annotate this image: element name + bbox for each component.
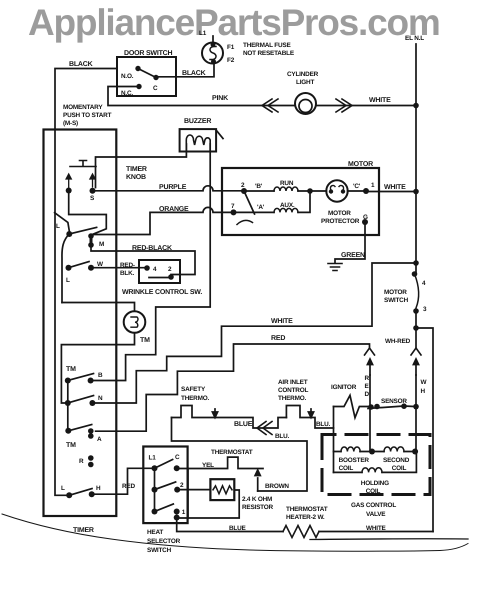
node wh-red	[413, 325, 419, 331]
heat selector terminal 2	[174, 487, 180, 493]
heat selector pivot 1	[152, 509, 158, 515]
svg-text:BUZZER: BUZZER	[184, 118, 211, 125]
svg-text:D: D	[365, 391, 370, 398]
svg-text:KNOB: KNOB	[126, 174, 146, 181]
svg-text:COIL: COIL	[366, 488, 381, 495]
svg-text:WH-RED: WH-RED	[385, 338, 411, 345]
wrinkle control switch box	[139, 260, 180, 283]
svg-text:RESISTOR: RESISTOR	[242, 504, 274, 511]
wire red sensor drop	[369, 375, 371, 452]
motor switch contact 4	[412, 271, 418, 277]
motor box	[222, 168, 379, 235]
wrinkle internal contact bar	[149, 277, 168, 279]
motor AUX winding	[274, 208, 298, 212]
wire right main neutral line	[415, 44, 417, 274]
node white branch	[413, 260, 419, 266]
wire 3 to wh-red node	[415, 311, 417, 348]
booster coil	[341, 447, 360, 452]
svg-text:(M-S): (M-S)	[63, 120, 78, 127]
thermal fuse lead L1	[212, 36, 214, 42]
ignitor element	[334, 395, 369, 417]
svg-text:PROTECTOR: PROTECTOR	[321, 218, 360, 225]
svg-text:THERMO.: THERMO.	[181, 395, 209, 402]
svg-text:R: R	[79, 458, 84, 465]
svg-text:MOTOR: MOTOR	[348, 161, 373, 168]
thermostat heater element	[283, 526, 319, 538]
timer contact S	[90, 188, 96, 194]
motor terminal 1	[363, 188, 369, 194]
wire WHITE bottom rail	[319, 531, 433, 533]
buzzer box	[180, 129, 217, 151]
wire BLACK door switch C to thermal fuse	[158, 64, 214, 77]
heat selector arm L1-C	[155, 460, 173, 469]
svg-text:SECOND: SECOND	[383, 457, 410, 464]
svg-text:CYLINDER: CYLINDER	[287, 71, 319, 78]
wire W to wrinkle control 4	[91, 267, 147, 269]
buzzer corner tick	[217, 131, 224, 139]
push-to-start arrow right	[90, 174, 95, 187]
door switch terminal N.O.	[135, 66, 140, 71]
svg-text:'A': 'A'	[257, 204, 265, 211]
svg-text:TM: TM	[66, 442, 76, 449]
svg-text:BLUE: BLUE	[234, 421, 253, 428]
svg-text:CONTROL: CONTROL	[278, 387, 308, 394]
page curl scan edge	[2, 514, 468, 551]
wire wh sensor drop	[415, 375, 417, 452]
svg-text:SAFETY: SAFETY	[181, 386, 206, 393]
disconnect chevrons left of cylinder light	[262, 99, 278, 112]
wire timer motor to B/N/A pivots	[61, 333, 134, 403]
wrinkle terminal 4	[144, 265, 150, 271]
timer arm L-W	[69, 262, 90, 268]
svg-text:THERMOSTAT: THERMOSTAT	[211, 449, 253, 456]
svg-text:'B': 'B'	[255, 183, 263, 190]
cylinder light lamp	[295, 93, 316, 114]
svg-text:THERMAL FUSE: THERMAL FUSE	[243, 42, 291, 49]
svg-text:PUSH TO START: PUSH TO START	[63, 112, 112, 119]
svg-text:'C': 'C'	[353, 183, 361, 190]
svg-text:SWITCH: SWITCH	[384, 297, 409, 304]
timer arm B	[68, 374, 94, 381]
timer arm N	[68, 396, 94, 404]
wire right outer drop	[416, 328, 433, 532]
wire RED timer H to heat selector L1	[92, 468, 155, 494]
svg-text:COIL: COIL	[392, 465, 407, 472]
svg-text:RUN: RUN	[280, 180, 294, 187]
wire WHITE motor to main line	[366, 191, 416, 193]
motor protector	[326, 180, 347, 201]
ground symbol	[328, 264, 342, 271]
wrinkle terminal 2	[168, 274, 174, 280]
svg-text:ORANGE: ORANGE	[159, 206, 189, 213]
motor switch contact 3	[413, 308, 419, 314]
wire W feed to timer motor	[62, 303, 135, 312]
svg-text:WHITE: WHITE	[271, 318, 293, 325]
svg-text:F2: F2	[227, 57, 235, 64]
svg-text:M: M	[99, 241, 104, 248]
svg-text:VALVE: VALVE	[366, 511, 386, 518]
svg-text:H: H	[96, 485, 101, 492]
svg-text:BROWN: BROWN	[265, 483, 289, 490]
svg-text:MOTOR: MOTOR	[328, 210, 351, 217]
wire 2 to resistor	[177, 489, 210, 491]
wire buzzer left leg to S contact	[96, 144, 187, 188]
timer contact B pivot	[65, 378, 71, 384]
sensor node dots	[368, 404, 374, 410]
contact dot left of S	[66, 188, 72, 194]
timer arm L-M	[69, 227, 96, 234]
timer contact B	[88, 378, 94, 384]
push-to-start knob symbol	[70, 161, 96, 167]
heat selector switch box	[143, 447, 187, 524]
gas valve dashed enclosure	[322, 435, 430, 495]
svg-text:AIR INLET: AIR INLET	[278, 379, 308, 386]
second coil	[384, 447, 404, 452]
node second/wh	[412, 449, 418, 455]
disconnect chevron wh line	[411, 348, 421, 355]
svg-text:AUX.: AUX.	[280, 202, 295, 209]
resistor zigzag	[213, 486, 232, 494]
heat selector pivot chain	[154, 468, 156, 511]
svg-text:2.4 K OHM: 2.4 K OHM	[242, 496, 272, 503]
svg-text:WRINKLE CONTROL SW.: WRINKLE CONTROL SW.	[122, 289, 202, 296]
disconnect chevrons right of cylinder light	[336, 99, 352, 112]
svg-text:N.C.: N.C.	[121, 90, 133, 97]
svg-text:L: L	[56, 223, 60, 230]
timer contact L-H pivot	[66, 492, 72, 498]
node pink/neutral	[413, 103, 419, 109]
svg-text:A: A	[97, 436, 102, 443]
heat selector terminal 1 dots	[174, 509, 180, 515]
wire run winding row	[244, 190, 310, 192]
svg-text:RED: RED	[122, 483, 135, 490]
heat selector arm 2	[155, 482, 176, 490]
wire RED-BLACK M to wrinkle control	[91, 245, 195, 277]
svg-text:IGNITOR: IGNITOR	[331, 384, 357, 391]
svg-text:PURPLE: PURPLE	[159, 184, 187, 191]
timer contact H	[89, 491, 95, 497]
wire YEL + thermostat bump	[177, 457, 263, 468]
timer arm L-H	[69, 489, 92, 496]
svg-text:L: L	[61, 485, 65, 492]
sensor bar	[368, 406, 416, 409]
safety thermostat	[172, 406, 216, 418]
connector tick blue	[212, 409, 217, 418]
svg-text:MOMENTARY: MOMENTARY	[63, 104, 103, 111]
wire GREEN to ground	[335, 222, 365, 263]
timer contact R dots	[88, 455, 94, 461]
svg-text:RED-BLACK: RED-BLACK	[132, 245, 172, 252]
motor RUN winding	[274, 187, 298, 191]
wire BLACK from door switch to timer feed	[55, 69, 117, 496]
svg-text:RED-: RED-	[120, 262, 135, 269]
timer contact M dots	[88, 233, 94, 239]
svg-text:R: R	[365, 375, 370, 382]
push-to-start arrow left	[66, 174, 71, 188]
svg-text:C: C	[175, 454, 180, 461]
wire safety left to brown node	[172, 418, 308, 492]
svg-text:BLUE: BLUE	[229, 525, 247, 532]
svg-text:F1: F1	[227, 44, 235, 51]
disconnect arrow wh line	[413, 359, 418, 375]
motor switch arm 2-A	[244, 191, 255, 214]
svg-text:TM: TM	[66, 366, 76, 373]
svg-text:H: H	[421, 388, 426, 395]
wire white branch to staircase	[95, 263, 416, 403]
motor terminal 2	[241, 188, 247, 194]
wire ORANGE M to motor 7	[91, 207, 234, 234]
wire RED staircase to timer A	[96, 344, 370, 431]
ignitor feed vertical	[333, 407, 335, 473]
centrifugal actuator arc	[237, 220, 253, 224]
svg-text:L1: L1	[149, 455, 157, 462]
motor terminal 7	[231, 209, 237, 215]
svg-text:SWITCH: SWITCH	[147, 547, 172, 554]
svg-text:BLU.: BLU.	[316, 421, 331, 428]
svg-text:L1: L1	[199, 30, 207, 37]
wire resistor right loop	[177, 490, 240, 518]
svg-text:WHITE: WHITE	[369, 97, 391, 104]
timer contact N	[89, 400, 95, 406]
wire protector row	[310, 190, 366, 192]
svg-text:TM: TM	[140, 337, 150, 344]
timer contact N pivot	[65, 400, 71, 406]
svg-text:GAS CONTROL: GAS CONTROL	[351, 502, 396, 509]
wire blue step	[215, 418, 286, 429]
wire left arrow dot to M loop	[69, 191, 107, 236]
svg-text:WHITE: WHITE	[366, 525, 387, 532]
timer arm A	[68, 425, 91, 431]
svg-text:MOTOR: MOTOR	[384, 289, 407, 296]
wire terminal 1 to bottom rail	[177, 518, 283, 532]
svg-text:GREEN: GREEN	[341, 252, 365, 259]
timer L wedge feed	[55, 213, 70, 231]
timer contact L pivot	[66, 231, 72, 237]
wire buzzer right leg down	[91, 144, 211, 381]
wire L pivot to L-W pivot	[62, 234, 69, 303]
connector tick blu right	[308, 409, 313, 418]
valve loop sides and holding coil row	[334, 452, 417, 473]
svg-text:BLACK: BLACK	[182, 70, 206, 77]
holding coil	[362, 468, 382, 473]
svg-text:HEATER-2 W.: HEATER-2 W.	[286, 514, 325, 521]
node booster/second	[369, 449, 375, 455]
heat selector terminal C	[174, 465, 180, 471]
svg-text:AppliancePartsPros.com: AppliancePartsPros.com	[28, 2, 440, 43]
valve coil loop top	[334, 451, 417, 453]
svg-text:N.O.: N.O.	[121, 73, 134, 80]
svg-text:HEAT: HEAT	[147, 529, 163, 536]
svg-text:COIL: COIL	[339, 465, 354, 472]
door switch terminal N.C.	[136, 84, 141, 89]
door switch S1 box	[117, 57, 176, 96]
svg-text:THERMOSTAT: THERMOSTAT	[286, 506, 328, 513]
svg-text:BLACK: BLACK	[69, 61, 93, 68]
svg-text:BOOSTER: BOOSTER	[339, 457, 370, 464]
heat selector pivot 2	[152, 487, 158, 493]
disconnect chevron red line	[365, 348, 375, 355]
disconnect arrow red line	[367, 359, 372, 375]
svg-text:PINK: PINK	[212, 95, 228, 102]
svg-text:BLK.: BLK.	[120, 270, 135, 277]
svg-text:N: N	[98, 395, 103, 402]
wire PURPLE S to motor 2	[93, 186, 245, 191]
timer box	[44, 130, 117, 517]
svg-text:DOOR SWITCH: DOOR SWITCH	[124, 50, 172, 57]
svg-text:BLU.: BLU.	[275, 433, 290, 440]
door switch arm N.O.-C	[138, 69, 156, 78]
connector arrow brown drop	[255, 470, 260, 491]
node motor white	[413, 189, 419, 195]
resistor 2.4K box	[210, 479, 234, 500]
svg-text:NOT RESETABLE: NOT RESETABLE	[243, 50, 295, 57]
svg-text:HOLDING: HOLDING	[361, 480, 389, 487]
svg-text:C: C	[153, 85, 158, 92]
timer contact A pivot	[65, 428, 71, 434]
timer contact W	[88, 265, 94, 271]
svg-text:WHITE: WHITE	[384, 184, 406, 191]
door switch terminal C	[153, 75, 158, 80]
motor switch blade	[415, 274, 419, 308]
svg-text:RED: RED	[271, 335, 285, 342]
air inlet control thermostat	[286, 406, 333, 429]
wire PINK from door switch N.C.	[108, 87, 295, 106]
timer contact A dots	[88, 428, 94, 434]
heat selector terminal L1	[152, 465, 158, 471]
svg-text:THERMO.: THERMO.	[278, 395, 306, 402]
wire tap C to resistor net	[187, 469, 189, 519]
buzzer coil	[186, 135, 210, 151]
timer pivot chain	[67, 381, 69, 431]
disconnect chevrons blue	[257, 422, 272, 435]
svg-text:LIGHT: LIGHT	[296, 79, 314, 86]
heat selector arm 1	[155, 504, 174, 512]
thermal fuse F1-F2	[202, 43, 223, 64]
timer contact L-W pivot	[66, 265, 72, 271]
wire aux winding row	[234, 191, 311, 212]
svg-text:EL N.L: EL N.L	[405, 35, 424, 42]
node run/aux	[307, 188, 313, 194]
timer motor TM	[124, 311, 146, 333]
svg-text:TIMER: TIMER	[126, 166, 147, 173]
svg-text:L: L	[66, 277, 70, 284]
svg-text:B: B	[98, 372, 103, 379]
